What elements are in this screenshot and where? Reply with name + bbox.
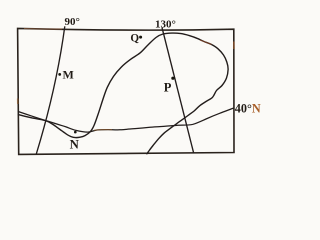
brown artifact on top border bbox=[24, 28, 62, 31]
point Q dot bbox=[139, 36, 142, 39]
brown artifact on left border bbox=[17, 99, 19, 105]
svg-text:N: N bbox=[70, 137, 80, 151]
boundary big curve (west tail, dip at N, steep rise, north loop, SE descent, dive south) bbox=[18, 33, 228, 154]
map frame border bbox=[18, 28, 234, 154]
svg-text:M: M bbox=[63, 67, 74, 81]
point P dot bbox=[171, 77, 174, 80]
latitude 40N curve bbox=[18, 108, 234, 132]
brown tint on loop NE descent bbox=[200, 40, 212, 45]
meridian 90E bbox=[36, 26, 65, 154]
svg-text:Q: Q bbox=[130, 32, 139, 44]
brown artifact on right border bbox=[233, 42, 235, 50]
svg-text:90°: 90° bbox=[65, 16, 80, 28]
brown tint on latitude curve bbox=[94, 129, 112, 132]
meridian 130E bbox=[162, 28, 194, 153]
point N dot bbox=[74, 131, 77, 134]
svg-text:130°: 130° bbox=[155, 18, 176, 30]
svg-text:P: P bbox=[164, 81, 172, 95]
svg-text:40°N: 40°N bbox=[235, 102, 261, 116]
point M dot bbox=[58, 73, 61, 76]
